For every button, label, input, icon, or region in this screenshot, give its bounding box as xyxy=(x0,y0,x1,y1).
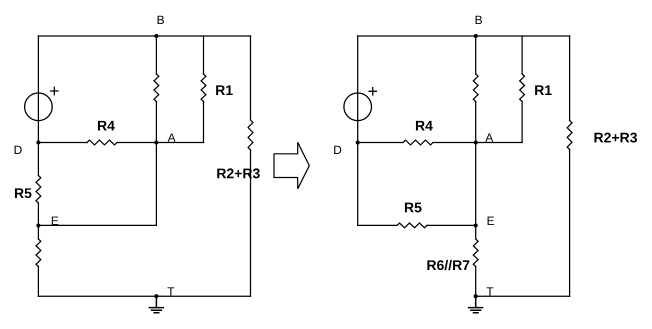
wire: top bus from source to R2+R3 (left circuit) xyxy=(38,35,250,37)
node D (right): junction dot xyxy=(356,141,360,145)
resistor R2+R3 label (right) xyxy=(594,133,637,143)
wire: left rail corner to R5 (right) xyxy=(358,224,397,226)
ground symbol (left circuit) xyxy=(149,296,163,313)
resistor R4 label (right) xyxy=(416,121,433,131)
node E (right): junction dot xyxy=(474,224,478,228)
wire: resistor bottom to node A (right) xyxy=(475,102,477,143)
resistor R1 value label (right) xyxy=(535,85,552,95)
resistor R1 value label (left) xyxy=(216,85,233,95)
wire: node E down to R6//R7 (right) xyxy=(475,225,477,239)
node D (right): label xyxy=(334,146,341,154)
resistor R2+R3 label (left) xyxy=(217,168,260,178)
resistor (unlabeled) below E (left circuit) xyxy=(36,239,41,266)
resistor R5 (right circuit) xyxy=(397,223,427,228)
resistor R4 (right circuit) xyxy=(403,140,433,145)
wire: node A down to E wire (left) xyxy=(155,143,157,226)
wire: R2+R3 rail top segment (right) xyxy=(569,36,571,121)
wire: R5 to node E (right) xyxy=(427,224,476,226)
wire: node E down to lower resistor (left) xyxy=(37,225,39,239)
wire: node D to R4 (left) xyxy=(38,142,87,144)
wire: R1 branch, top bus down to R1 (right) xyxy=(521,36,523,74)
wire: node B down to resistor top (right) xyxy=(475,36,477,74)
wire: node D down to R5 level (right) xyxy=(357,143,359,226)
wire: R4 to node A and on to R1 corner (left) xyxy=(117,142,204,144)
wire: node E horizontal to A branch (left) xyxy=(38,224,156,226)
resistor R4 label (left) xyxy=(98,121,115,131)
ground symbol (right circuit) xyxy=(469,296,483,313)
node A (left): label xyxy=(168,133,176,141)
node D (left): junction dot xyxy=(36,141,40,145)
wire: lower resistor to bottom bus (left) xyxy=(37,267,39,297)
wire: left rail top, source branch through V1 down to node D xyxy=(37,36,39,143)
node T (left): label xyxy=(167,287,174,295)
wire: R1 branch, top bus down to R1 (left) xyxy=(203,36,205,74)
resistor R2+R3 (left circuit) xyxy=(248,120,253,150)
resistor (unlabeled) between B and A (right circuit) xyxy=(473,74,478,101)
wire: R2+R3 rail bottom segment (left) xyxy=(250,150,252,296)
wire: node D to R4 (right) xyxy=(358,142,403,144)
resistor R5 label (right) xyxy=(405,203,422,213)
wire: R2+R3 rail bottom segment (right) xyxy=(569,150,571,297)
wire: node A down to node E (right) xyxy=(475,143,477,226)
node B (right): junction dot xyxy=(474,34,478,38)
wire: resistor bottom to node A (left) xyxy=(155,102,157,143)
node E (right): label xyxy=(488,217,495,225)
wire: R6//R7 bottom to ground node (right) xyxy=(475,267,477,297)
resistor R6//R7 (right circuit) xyxy=(473,239,478,266)
block arrow between circuits xyxy=(274,142,309,189)
resistor R2+R3 (right circuit) xyxy=(567,121,572,150)
wire: top bus from source to R2+R3 (right circuit) xyxy=(358,35,570,37)
wire: R5 bottom to node E (left) xyxy=(37,203,39,225)
resistor R5 (left circuit) xyxy=(36,176,41,203)
resistor R6//R7 label (right) xyxy=(427,260,469,270)
resistor R1 (right circuit) xyxy=(520,74,525,101)
node A (right): junction dot xyxy=(474,141,478,145)
node E (left): junction dot xyxy=(36,224,40,228)
wire: left rail top, source branch through V1 down to node D (right) xyxy=(357,36,359,143)
node B (right): label xyxy=(476,16,482,24)
wire: R1 bottom down to node-A wire (right) xyxy=(521,102,523,143)
node B (left): junction dot xyxy=(154,34,158,38)
wire: R2+R3 rail top segment (left) xyxy=(250,36,252,120)
node T (right): label xyxy=(487,287,494,295)
polarity mark + of V1 (left) xyxy=(51,87,58,94)
resistor R1 (left circuit) xyxy=(201,74,206,101)
node B (left): label xyxy=(158,16,164,24)
wire: R1 bottom down to node-A wire (left) xyxy=(203,102,205,143)
node D (left): label xyxy=(15,146,22,154)
voltage source V1 (right circuit) xyxy=(344,93,372,121)
wire: bottom bus from ground to R2+R3 (right) xyxy=(476,295,570,297)
resistor R5 label (left) xyxy=(15,188,32,198)
resistor R4 (left circuit) xyxy=(87,140,117,145)
node E (left): label xyxy=(52,217,59,225)
wire: bottom bus (left circuit) xyxy=(38,295,250,297)
wire: node D down to R5 (left) xyxy=(37,143,39,176)
node T (left): junction dot at ground tap xyxy=(154,294,158,298)
polarity mark + of V1 (right) xyxy=(369,88,376,95)
voltage source V1 (left circuit) xyxy=(25,93,53,121)
wire: node B down to resistor top (left) xyxy=(155,36,157,74)
resistor (unlabeled) between B and A (left circuit) xyxy=(154,74,159,101)
wire: R4 to node A and on to R1 corner (right) xyxy=(433,142,522,144)
node T (right): junction dot at ground xyxy=(474,294,478,298)
node A (left): junction dot xyxy=(154,141,158,145)
node A (right): label xyxy=(485,133,493,141)
